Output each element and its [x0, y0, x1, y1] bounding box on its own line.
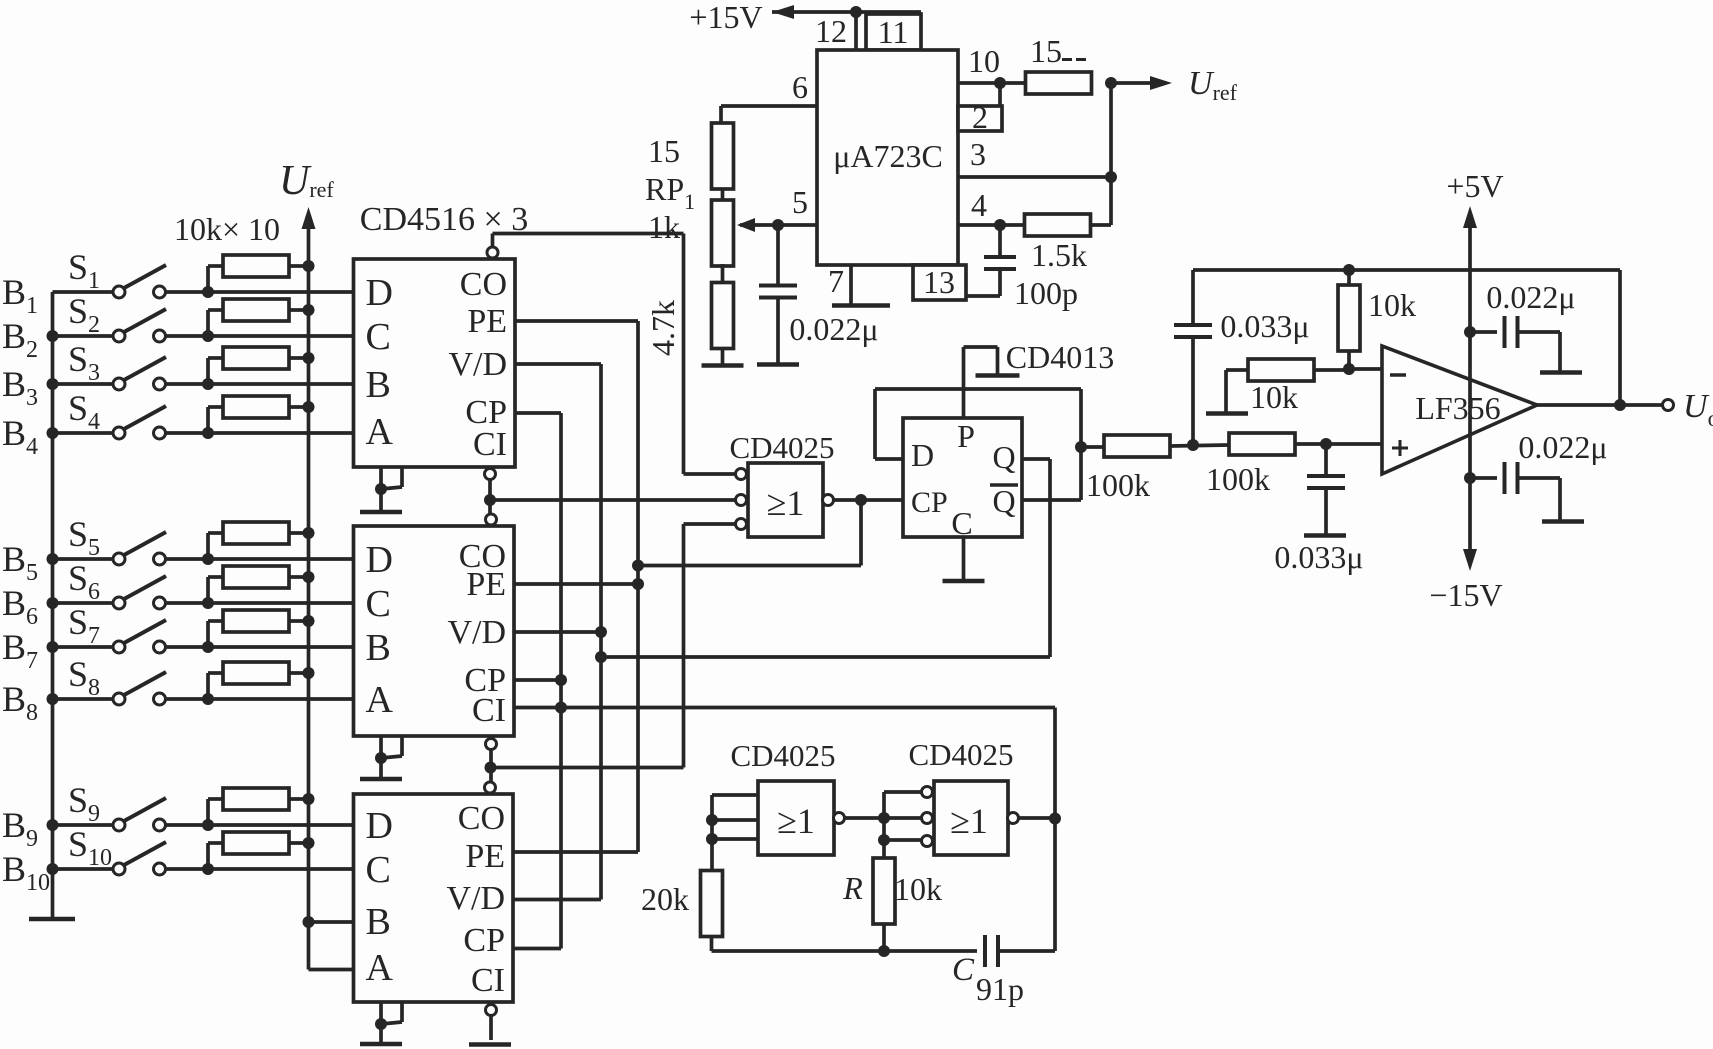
svg-text:100k: 100k — [1086, 467, 1150, 503]
junction B9 bus — [47, 819, 59, 831]
svg-text:PE: PE — [466, 566, 506, 603]
wire G1 out to CD4013 CP — [833, 498, 903, 502]
wire inverting input — [1349, 367, 1382, 371]
label 10k x 10 — [174, 211, 280, 247]
svg-text:V/D: V/D — [446, 880, 505, 917]
junction Uref resistor 3 — [303, 352, 315, 364]
junction pin4 — [994, 219, 1006, 231]
wire CP bus vertical — [559, 413, 563, 949]
resistor R 100k first — [1086, 435, 1170, 503]
junction Qbar node — [1075, 441, 1087, 453]
wire Q to VD bus — [601, 459, 1050, 657]
switch S10 — [53, 842, 209, 875]
counter U1 CD4516 — [354, 259, 516, 467]
svg-text:2: 2 — [972, 99, 988, 135]
pin 12 of U6 — [815, 12, 856, 50]
label 0.033u noninverting — [1274, 539, 1363, 575]
node B6 label — [2, 583, 38, 630]
pin D of counter U2 CD4516 — [366, 539, 393, 581]
label +15V — [689, 0, 762, 35]
junction Uref to B pin — [303, 916, 315, 928]
label CD4025 gate2 — [730, 738, 835, 773]
counter U3 CD4516 — [354, 794, 514, 1002]
wire B3 to counter — [208, 382, 354, 386]
svg-text:5: 5 — [792, 184, 808, 220]
junction noninverting node — [1320, 438, 1332, 450]
ground bracket U1 — [360, 467, 402, 512]
junction S8 output — [202, 693, 214, 705]
label S8 — [68, 654, 100, 701]
wire CP3 to CP bus — [513, 947, 561, 951]
resistor 10k row 5 — [208, 522, 309, 559]
label RP1 — [645, 133, 695, 245]
resistor 1.5k — [1025, 214, 1112, 273]
junction bottom rail R — [878, 945, 890, 957]
pin A of counter U3 CD4516 — [366, 947, 394, 989]
label 0.022u lower — [1518, 429, 1607, 465]
switch S8 — [53, 672, 209, 705]
node B8 label — [2, 679, 38, 726]
op-amp U7 LF356 — [1382, 346, 1537, 474]
capacitor 0.033u noninverting — [1304, 444, 1346, 536]
label CD4025 gate3 — [908, 737, 1013, 772]
svg-text:B: B — [366, 364, 391, 406]
svg-text:10k× 10: 10k× 10 — [174, 211, 280, 247]
svg-text:12: 12 — [815, 13, 847, 49]
svg-text:6: 6 — [792, 69, 808, 105]
junction B8 bus — [47, 693, 59, 705]
label 10k feedback — [1368, 287, 1416, 323]
resistor 4.7k wire vertical — [682, 234, 686, 475]
junction CP bus CP2 — [555, 674, 567, 686]
pin CP label — [911, 486, 948, 519]
pin CI of counter U3 CD4516 — [471, 962, 505, 999]
wire VD1 to VD bus — [515, 362, 601, 366]
label S3 — [68, 339, 100, 386]
wire B2 to counter — [208, 334, 354, 338]
node B5 label — [2, 539, 38, 586]
junction B2 bus — [47, 330, 59, 342]
svg-text:100p: 100p — [1014, 275, 1078, 311]
or-gate G2 CD4025 — [758, 781, 834, 855]
pin A of counter U1 CD4516 — [366, 411, 394, 453]
pin G1 in1 — [736, 469, 747, 480]
label S10 — [68, 824, 112, 871]
switch S3 — [53, 357, 209, 390]
svg-text:Q: Q — [992, 483, 1015, 519]
junction top rail 10k — [1343, 264, 1355, 276]
pin CI top of U3 — [485, 782, 496, 793]
svg-text:15: 15 — [1030, 33, 1062, 69]
switch S5 — [53, 532, 209, 565]
pin CO bottom of U1 — [485, 469, 496, 515]
junction Uref resistor 1 — [303, 260, 315, 272]
junction B4 bus — [47, 427, 59, 439]
junction output feedback — [1614, 399, 1626, 411]
svg-text:D: D — [366, 539, 393, 581]
svg-text:1k: 1k — [648, 209, 680, 245]
junction CO2 node — [485, 762, 497, 774]
wire Q down — [1022, 457, 1050, 461]
pin CO top of U1 — [487, 234, 498, 259]
pin B of counter U2 CD4516 — [366, 627, 391, 669]
resistor R 100k second — [1206, 433, 1295, 497]
svg-text:100k: 100k — [1206, 461, 1270, 497]
pin A of counter U2 CD4516 — [366, 679, 394, 721]
junction S9 output — [202, 819, 214, 831]
wire VD2 to VD bus — [514, 630, 601, 634]
junction pin3 — [1105, 171, 1117, 183]
wire B8 to counter — [208, 697, 354, 701]
wire feedback right — [1618, 270, 1622, 405]
svg-text:≥1: ≥1 — [767, 483, 805, 523]
pin B of counter U3 CD4516 — [366, 901, 391, 943]
pin CP of counter U3 CD4516 — [463, 922, 505, 959]
wire 1k from CO1 top — [493, 232, 684, 236]
svg-text:10k: 10k — [1250, 379, 1298, 415]
flip-flop U5 CD4013 — [903, 418, 1022, 537]
junction B3 bus — [47, 378, 59, 390]
wire oscillator bottom rail — [712, 949, 978, 953]
junction -15V cap — [1464, 472, 1476, 484]
junction S1 output — [202, 286, 214, 298]
junction Uref resistor 9 — [303, 793, 315, 805]
pin G3 out — [1008, 813, 1019, 824]
resistor 10k row 3 — [208, 347, 309, 384]
svg-text:0.033μ: 0.033μ — [1274, 539, 1363, 575]
node B7 label — [2, 627, 38, 674]
svg-text:V/D: V/D — [448, 346, 507, 383]
svg-text:CD4025: CD4025 — [730, 738, 835, 773]
junction B10 bus — [47, 863, 59, 875]
wire D feedback loop — [875, 389, 1081, 500]
capacitor 0.033u feedback — [1174, 270, 1212, 444]
wire between 100k — [1171, 445, 1228, 446]
junction S7 output — [202, 641, 214, 653]
svg-text:D: D — [911, 437, 934, 473]
wire B1 to counter — [208, 290, 354, 294]
svg-text:CO: CO — [460, 266, 507, 303]
resistor 20k — [641, 871, 723, 952]
pin 6 wire — [721, 69, 817, 123]
label Uref top — [279, 158, 334, 204]
svg-text:10: 10 — [968, 43, 1000, 79]
pin C of counter U2 CD4516 — [366, 583, 391, 625]
wire PE3 to PE bus — [513, 850, 638, 854]
wire VD3 to VD bus — [513, 898, 601, 902]
pin V/D of counter U2 CD4516 — [447, 614, 506, 651]
pin C label — [951, 505, 972, 541]
node Uref bus — [302, 207, 354, 970]
label S1 — [68, 247, 100, 294]
junction oscillator out — [1049, 813, 1061, 825]
pin 2 tab — [958, 83, 1002, 135]
wire B9 to counter — [208, 823, 354, 827]
junction Uref resistor 6 — [303, 571, 315, 583]
ground bracket U2 — [360, 736, 402, 779]
wire Uref to B pin of U4 — [309, 920, 354, 924]
node B3 label — [2, 364, 38, 411]
svg-text:CP: CP — [911, 486, 948, 519]
svg-text:13: 13 — [923, 264, 955, 300]
wire G3 out — [1018, 816, 1055, 820]
junction S2 output — [202, 330, 214, 342]
pin G3 in2 — [922, 813, 933, 824]
pin D of counter U1 CD4516 — [366, 272, 393, 314]
pin G3 in1 — [922, 787, 933, 798]
pin 5 wiper — [737, 184, 817, 232]
wire PE bus vertical — [636, 321, 640, 852]
switch S9 — [53, 798, 209, 831]
junction Uref resistor 8 — [303, 667, 315, 679]
junction Uref resistor 4 — [303, 401, 315, 413]
wire Qbar to 100k — [1081, 445, 1103, 449]
junction S4 output — [202, 427, 214, 439]
svg-text:0.022μ: 0.022μ — [1518, 429, 1607, 465]
svg-text:D: D — [366, 805, 393, 847]
node Uref vertical — [1109, 83, 1113, 225]
wire oscillator loop right — [1053, 708, 1057, 952]
label S5 — [68, 514, 100, 561]
resistor 10k row 9 — [208, 788, 309, 825]
svg-text:C: C — [952, 952, 975, 988]
pin G1 in2 — [736, 495, 747, 506]
junction B7 bus — [47, 641, 59, 653]
junction pin10 — [994, 77, 1006, 89]
svg-text:CP: CP — [463, 922, 505, 959]
or-gate G1 CD4025 — [748, 463, 823, 537]
svg-text:10k: 10k — [894, 871, 942, 907]
wire +15V rail — [772, 5, 921, 19]
counter U2 CD4516 — [354, 526, 515, 736]
svg-text:CI: CI — [473, 426, 507, 463]
pin Qbar label — [990, 483, 1018, 519]
svg-text:C: C — [366, 316, 391, 358]
wire clock line CI2 — [514, 706, 1055, 710]
label S6 — [68, 558, 100, 605]
junction G1 out — [855, 494, 867, 506]
svg-text:1.5k: 1.5k — [1031, 237, 1087, 273]
wire G1 out to PE bus — [638, 500, 861, 566]
svg-text:B: B — [366, 627, 391, 669]
label S7 — [68, 602, 100, 649]
junction VD bus lower — [595, 651, 607, 663]
switch S4 — [53, 406, 209, 439]
pin Q label — [992, 439, 1015, 475]
svg-text:11: 11 — [878, 14, 909, 50]
junction 100k mid — [1187, 439, 1199, 451]
junction S10 output — [202, 863, 214, 875]
junction G2 in2 — [706, 814, 718, 826]
wire VD bus vertical — [599, 364, 603, 900]
svg-text:CI: CI — [472, 692, 506, 729]
pin D of counter U3 CD4516 — [366, 805, 393, 847]
power bracket CD4013 — [964, 347, 1020, 417]
svg-text:0.022μ: 0.022μ — [1486, 279, 1575, 315]
wire PE1 to PE bus — [515, 319, 638, 323]
svg-text:LF356: LF356 — [1415, 390, 1500, 426]
svg-text:μA723C: μA723C — [833, 138, 943, 174]
junction CP bus clock — [555, 702, 567, 714]
junction inverting node — [1343, 363, 1355, 375]
label S2 — [68, 291, 100, 338]
wire gate1 input1 — [684, 472, 737, 476]
junction Uref out — [1105, 77, 1117, 89]
label -15V — [1429, 577, 1502, 613]
label 0.033u feedback — [1220, 308, 1309, 344]
junction Uref resistor 7 — [303, 615, 315, 627]
svg-text:−15V: −15V — [1429, 577, 1502, 613]
pin P label — [957, 418, 975, 454]
junction B5 bus — [47, 553, 59, 565]
wire Uref out arrow — [1111, 76, 1172, 90]
junction B6 bus — [47, 597, 59, 609]
svg-text:R: R — [842, 870, 863, 906]
svg-text:20k: 20k — [641, 881, 689, 917]
switch S6 — [53, 576, 209, 609]
pin C of counter U1 CD4516 — [366, 316, 391, 358]
capacitor 100p — [966, 225, 1078, 311]
pin G1 out — [823, 495, 834, 506]
svg-text:CD4025: CD4025 — [908, 737, 1013, 772]
svg-text:+5V: +5V — [1446, 168, 1503, 204]
wire feedback top rail — [1193, 268, 1620, 272]
potentiometer RP1 — [712, 123, 734, 364]
svg-text:0.022μ: 0.022μ — [789, 311, 878, 347]
svg-text:4: 4 — [971, 187, 987, 223]
svg-text:C: C — [366, 583, 391, 625]
wire B6 to counter — [208, 601, 354, 605]
pin Uo terminal — [1663, 400, 1674, 411]
pin PE of counter U1 CD4516 — [467, 303, 507, 340]
wire 100k to op-amp — [1296, 442, 1382, 446]
svg-text:CD4025: CD4025 — [729, 430, 834, 465]
node B input bus — [51, 292, 55, 917]
pin 13 tab — [913, 264, 966, 300]
svg-text:CI: CI — [471, 962, 505, 999]
svg-text:+15V: +15V — [689, 0, 762, 35]
pin G3 in3 — [922, 836, 933, 847]
regulator U6 uA723C — [817, 50, 958, 265]
resistor 10k row 7 — [208, 610, 309, 647]
wire B7 to counter — [208, 645, 354, 649]
junction PE bus lower — [632, 578, 644, 590]
label 0.022u pin5 — [789, 311, 878, 347]
capacitor C 91p — [952, 935, 1055, 1007]
label CD4025 gate1 — [729, 430, 834, 465]
svg-text:B: B — [366, 901, 391, 943]
resistor 10k row 10 — [208, 832, 309, 869]
wire B10 to counter — [208, 867, 354, 871]
pin C of counter U3 CD4516 — [366, 849, 391, 891]
wire CO1 to gate1 input2 — [490, 498, 736, 502]
pin CO of counter U3 CD4516 — [458, 800, 505, 837]
svg-text:≥1: ≥1 — [950, 801, 988, 841]
pin CP of counter U2 CD4516 — [464, 662, 506, 699]
junction S6 output — [202, 597, 214, 609]
resistor R 10k osc — [842, 858, 942, 924]
pin CI of counter U1 CD4516 — [473, 426, 507, 463]
ground RP1 — [702, 363, 744, 368]
wire G3 in3 — [884, 818, 922, 840]
pin CI bottom of U3 — [486, 1005, 497, 1041]
pin CI of counter U2 CD4516 — [472, 692, 506, 729]
label CD4516 x 3 — [360, 201, 528, 238]
svg-text:Q: Q — [992, 439, 1015, 475]
junction pin5 — [772, 219, 784, 231]
wire R bottom — [882, 923, 886, 951]
pin V/D of counter U1 CD4516 — [448, 346, 507, 383]
pin CO of counter U2 CD4516 — [459, 538, 506, 575]
resistor 15 ohm — [1026, 33, 1092, 94]
label +5V — [1446, 168, 1503, 204]
svg-text:PE: PE — [465, 838, 505, 875]
pin 4 wire — [958, 187, 1024, 225]
node B2 label — [2, 316, 38, 363]
wire R top — [882, 840, 886, 859]
switch S1 — [53, 265, 209, 298]
wire G2 out to G3 — [844, 816, 922, 820]
ground bracket U3 — [360, 1002, 402, 1044]
label Uref out — [1188, 65, 1238, 105]
label 0.022u upper — [1486, 279, 1575, 315]
pin 7 ground — [828, 263, 890, 306]
resistor 10k row 2 — [208, 299, 309, 336]
junction PE bus upper — [632, 560, 644, 572]
svg-text:D: D — [366, 272, 393, 314]
svg-text:3: 3 — [970, 136, 986, 172]
label S9 — [68, 780, 100, 827]
svg-text:CO: CO — [458, 800, 505, 837]
pin G2 out — [834, 813, 845, 824]
svg-text:V/D: V/D — [447, 614, 506, 651]
svg-text:7: 7 — [828, 263, 844, 299]
svg-text:A: A — [366, 679, 394, 721]
junction CO1 node — [484, 494, 496, 506]
svg-text:91p: 91p — [976, 971, 1024, 1007]
wire G2 inputs tied — [712, 795, 758, 870]
resistor 10k feedback — [1338, 270, 1360, 369]
svg-text:PE: PE — [467, 303, 507, 340]
resistor 10k row 4 — [208, 396, 309, 433]
pin B of counter U1 CD4516 — [366, 364, 391, 406]
svg-text:10k: 10k — [1368, 287, 1416, 323]
ground B bus — [29, 917, 75, 922]
pin PE of counter U3 CD4516 — [465, 838, 505, 875]
label CD4013 — [1006, 339, 1114, 375]
node B4 label — [2, 413, 38, 460]
wire G3 in1 — [884, 792, 922, 818]
svg-text:CD4013: CD4013 — [1006, 339, 1114, 375]
switch S2 — [53, 309, 209, 342]
resistor 10k row 1 — [208, 255, 309, 292]
node B1 label — [2, 272, 38, 319]
label Uo — [1683, 388, 1713, 431]
junction G3 node — [878, 812, 890, 824]
wire B4 to counter — [208, 431, 354, 435]
resistor 10k to ground — [1206, 359, 1349, 414]
svg-text:A: A — [366, 411, 394, 453]
junction Uref resistor 5 — [303, 527, 315, 539]
junction G3 node low — [878, 834, 890, 846]
pin 3 wire — [958, 136, 1111, 177]
capacitor 0.022u lower — [1470, 462, 1584, 522]
svg-text:0.033μ: 0.033μ — [1220, 308, 1309, 344]
junction S3 output — [202, 378, 214, 390]
ground C pin — [943, 537, 985, 581]
svg-text:≥1: ≥1 — [777, 801, 815, 841]
pin 11 tab — [866, 14, 921, 50]
